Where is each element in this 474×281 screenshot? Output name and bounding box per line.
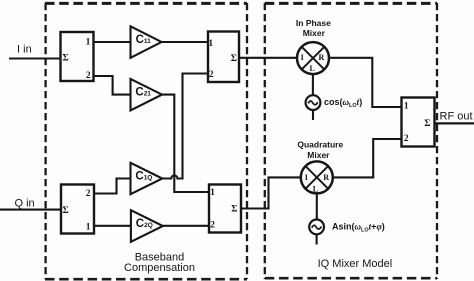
svg-text:2: 2	[209, 70, 214, 80]
svg-text:Σ: Σ	[231, 204, 237, 214]
oscillator LO2 (Asin source)	[309, 220, 324, 245]
svg-text:L: L	[313, 185, 318, 194]
amplifier C11	[131, 26, 162, 58]
svg-text:1: 1	[210, 188, 215, 198]
wire S4 output to mixer M2	[241, 177, 301, 208]
wire C11 to S3 pin1	[162, 41, 209, 43]
svg-text:IQ Mixer Model: IQ Mixer Model	[318, 258, 393, 270]
svg-text:I: I	[301, 53, 304, 62]
value label Asin(wLOt+phi)	[332, 222, 385, 234]
label Quadrature Mixer	[297, 139, 343, 160]
dashed box: Baseband Compensation	[45, 3, 247, 279]
svg-text:2Q: 2Q	[144, 222, 153, 229]
svg-text:1Q: 1Q	[144, 175, 153, 182]
svg-text:R: R	[319, 53, 325, 62]
wire S2 pin2 to C1Q	[94, 179, 131, 194]
label In Phase Mixer	[296, 18, 331, 38]
oscillator LO1 (cos source)	[306, 95, 321, 120]
svg-text:2: 2	[404, 134, 409, 144]
summer S5 (RF combiner)	[402, 98, 435, 147]
wire RF output	[435, 122, 474, 124]
label RF out	[440, 110, 473, 122]
svg-text:Compensation: Compensation	[124, 262, 195, 274]
wire M2 L-port to oscillator LO2	[316, 193, 318, 219]
wire S3 output to mixer M1	[239, 57, 297, 59]
svg-text:RF out: RF out	[440, 110, 473, 122]
svg-text:I in: I in	[17, 43, 32, 55]
summer S3 (I path combiner)	[208, 32, 239, 83]
wire M1 L-port to oscillator LO1	[312, 74, 314, 95]
svg-text:Σ: Σ	[424, 119, 430, 129]
dashed box: IQ Mixer Model	[265, 3, 437, 279]
svg-text:2: 2	[210, 221, 215, 231]
mixer M2 (Quadrature)	[301, 161, 333, 193]
value label cos(wLOt)	[324, 97, 362, 109]
svg-text:Σ: Σ	[231, 54, 237, 64]
summer S1 (I channel splitter)	[61, 32, 94, 81]
wire S1 pin1 to C11	[94, 41, 131, 43]
label Baseband Compensation	[124, 252, 195, 275]
label I in	[17, 43, 32, 55]
wire I in input	[9, 57, 61, 59]
wire M1 output to S5 pin1	[329, 58, 402, 107]
wire Q in input	[0, 209, 61, 211]
amplifier C1Q	[131, 163, 163, 194]
svg-text:I: I	[305, 173, 308, 182]
svg-text:In Phase: In Phase	[296, 18, 331, 28]
svg-text:1: 1	[86, 38, 91, 48]
svg-text:C: C	[135, 87, 143, 99]
wire S1 pin2 to C21	[94, 76, 131, 95]
wire C2Q to S4 pin2	[163, 225, 209, 227]
summer S4 (Q path combiner)	[209, 185, 241, 233]
svg-text:R: R	[323, 173, 329, 182]
mixer M1 (In Phase)	[297, 42, 329, 74]
svg-text:2: 2	[86, 189, 91, 199]
svg-text:C: C	[136, 34, 144, 46]
wire M2 output to S5 pin2	[333, 139, 402, 177]
wire C21 to S4 pin1 (cross path down)	[162, 95, 209, 192]
label Q in	[15, 197, 35, 209]
svg-text:21: 21	[144, 91, 152, 98]
summer S2 (Q channel splitter)	[61, 185, 94, 234]
label IQ Mixer Model	[318, 258, 393, 270]
svg-text:2: 2	[86, 71, 91, 81]
svg-text:1: 1	[86, 222, 91, 232]
svg-text:11: 11	[144, 38, 151, 45]
svg-text:C: C	[135, 171, 143, 183]
svg-text:Q in: Q in	[15, 197, 35, 209]
wire C1Q to S3 pin2 (cross path up, hops over C21 wire)	[162, 74, 208, 179]
svg-text:1: 1	[208, 39, 213, 49]
wire S2 pin1 to C2Q	[94, 225, 131, 227]
svg-text:Mixer: Mixer	[303, 28, 326, 38]
svg-text:Σ: Σ	[62, 54, 68, 64]
svg-text:C: C	[136, 218, 144, 230]
amplifier C21	[131, 79, 163, 111]
svg-text:Mixer: Mixer	[307, 150, 330, 160]
svg-text:L: L	[310, 64, 315, 73]
svg-text:Σ: Σ	[62, 206, 68, 216]
svg-text:Quadrature: Quadrature	[297, 139, 343, 149]
amplifier C2Q	[131, 210, 163, 242]
svg-text:1: 1	[404, 101, 409, 111]
